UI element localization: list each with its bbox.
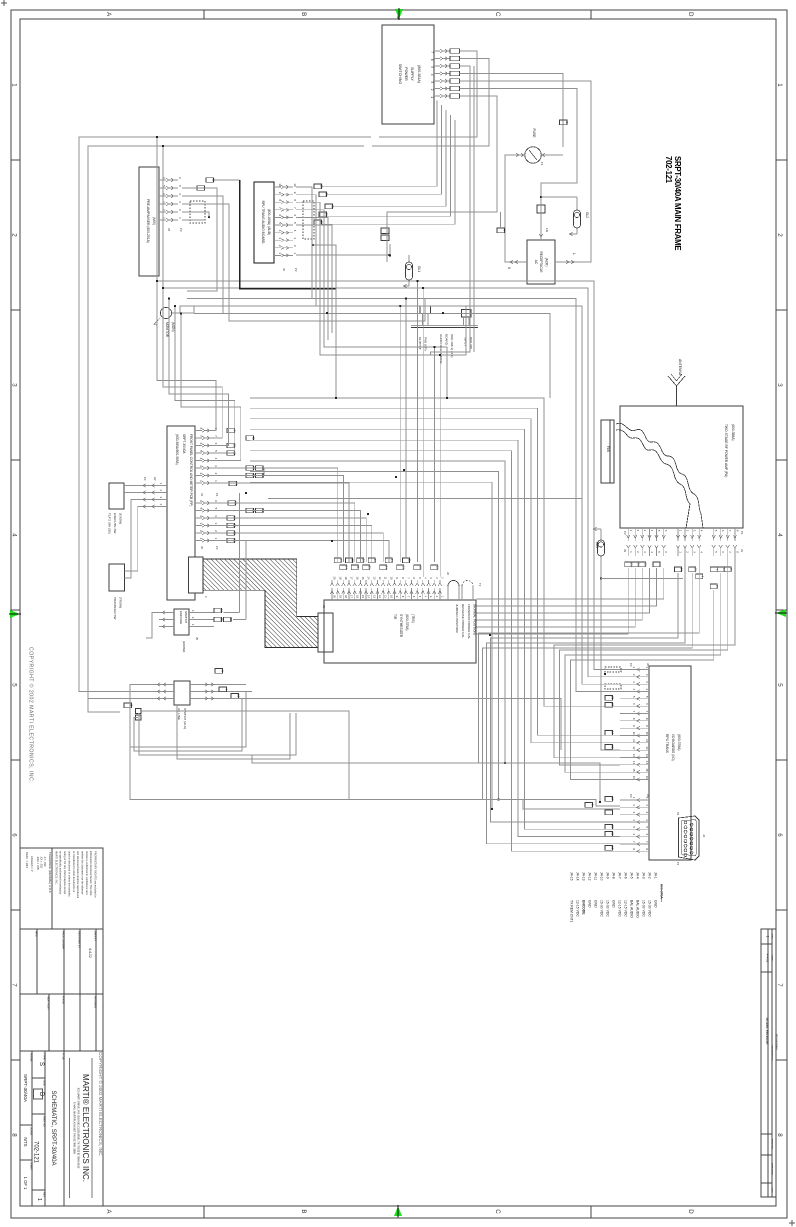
svg-text:13: 13 (632, 754, 636, 758)
svg-text:J4-2: J4-2 (648, 872, 652, 879)
svg-text:15: 15 (715, 585, 719, 589)
zone letter labels (105, 12, 694, 1214)
svg-text:FG: FG (545, 228, 549, 233)
svg-text:mation is submitted in confide: mation is submitted in confidence and (85, 851, 89, 895)
svg-text:38: 38 (694, 568, 698, 572)
svg-text:15-30 VDC: 15-30 VDC (600, 900, 604, 917)
svg-text:31,: 31, (356, 565, 360, 569)
svg-text:REVISIONS: REVISIONS (775, 1034, 779, 1050)
svg-text:GND: GND (612, 900, 616, 908)
wire PSU aux bundle to AUD labels (322, 101, 456, 225)
svg-text:COPYRIGHT © 2002 MARTI ELECTRO: COPYRIGHT © 2002 MARTI ELECTRONICS, INC. (28, 647, 35, 783)
wire bold audio feed (240, 180, 337, 289)
svg-text:13: 13 (402, 566, 406, 570)
svg-text:11: 11 (645, 739, 649, 742)
svg-text:J4-12: J4-12 (588, 872, 592, 881)
svg-text:(NORMAL POSITION): (NORMAL POSITION) (473, 604, 477, 635)
svg-text:21: 21 (324, 213, 328, 217)
svg-text:(800-380A/800-385A): (800-380A/800-385A) (175, 434, 179, 465)
svg-text:GND: GND (588, 900, 592, 908)
T/R synthesizer TRS (800-375A) + jumper info (324, 600, 477, 663)
svg-text:13: 13 (219, 609, 223, 613)
svg-text:.X ± .030: .X ± .030 (43, 856, 47, 867)
svg-text:(800-381A): (800-381A) (417, 65, 421, 83)
wire PSU lower stubs (473, 66, 475, 352)
svg-text:12: 12 (436, 566, 440, 570)
svg-text:ENCODE: ENCODE (179, 611, 183, 624)
svg-text:8: 8 (776, 1133, 783, 1137)
RF coil squiggles inside PA (616, 423, 703, 528)
svg-text:16: 16 (355, 595, 359, 598)
svg-text:MFG: MFG (35, 931, 38, 937)
svg-text:33: 33 (339, 559, 343, 563)
svg-text:GND: GND (594, 900, 598, 908)
svg-text:J3: J3 (167, 228, 171, 231)
MIX shield dashed box (190, 201, 210, 223)
F1/F2 switch + execute switch EXSW (108, 477, 168, 534)
svg-text:FRAC. ± 1/64: FRAC. ± 1/64 (25, 852, 29, 868)
svg-text:MARTI ELECTRONICS, INC.: MARTI ELECTRONICS, INC. (54, 851, 58, 885)
svg-text:15-30 VDC: 15-30 VDC (606, 900, 610, 917)
svg-text:J4-5: J4-5 (630, 872, 634, 879)
wire input pad loop via x582 (268, 306, 582, 499)
svg-text:or transferred to other docume: or transferred to other documents or (72, 851, 76, 893)
svg-text:SWITCHING: SWITCHING (398, 64, 402, 85)
svg-text:12: 12 (645, 746, 649, 750)
tolerance cell text (25, 852, 52, 894)
svg-text:23: 23 (390, 559, 394, 563)
svg-text:D: D (687, 1209, 694, 1214)
proprietary note text (54, 851, 97, 899)
wire pre-amp harness (182, 180, 425, 321)
svg-text:5: 5 (10, 683, 17, 687)
green centering marks (395, 8, 403, 20)
jumper arcs at TRS (448, 581, 482, 601)
svg-text:11: 11 (384, 577, 388, 580)
svg-text:15-30 VDC: 15-30 VDC (648, 900, 652, 917)
svg-text:DATE: DATE (771, 955, 774, 961)
svg-text:MODEL: MODEL (30, 1053, 33, 1063)
wire GL3 run (601, 579, 683, 750)
svg-text:J2: J2 (446, 572, 450, 575)
svg-text:16: 16 (355, 577, 359, 580)
svg-text:5: 5 (430, 66, 434, 68)
svg-text:A2: A2 (153, 477, 157, 481)
svg-text:INPUT: INPUT (464, 337, 468, 346)
svg-text:P2: P2 (294, 268, 298, 272)
svg-text:(800-388A): (800-388A) (731, 424, 735, 441)
title block frame (20, 848, 103, 1206)
svg-text:PROJ. LEADER: PROJ. LEADER (62, 931, 65, 949)
svg-text:8: 8 (10, 1133, 17, 1137)
audio regulator board RB (800-168-1) (411, 299, 478, 364)
svg-text:GL2: GL2 (585, 212, 589, 218)
wire PA pin groups J1/P1 drops to I/O (479, 556, 735, 844)
svg-text:34: 34 (345, 566, 349, 570)
svg-text:10: 10 (389, 577, 393, 580)
svg-text:5: 5 (776, 683, 783, 687)
svg-text:16: 16 (632, 776, 636, 780)
svg-text:(800-169A) (AUD): (800-169A) (AUD) (267, 209, 271, 236)
svg-text:26: 26 (229, 618, 233, 622)
svg-text:TX REM CNTL: TX REM CNTL (570, 900, 574, 923)
switching power supply PS1 (800-381A) (382, 25, 434, 124)
lamp GL2 (569, 197, 589, 236)
svg-text:P2: P2 (215, 546, 219, 550)
svg-text:2: 2 (776, 233, 783, 237)
svg-text:C: C (494, 1209, 501, 1214)
wire PSU pin harness (372, 51, 591, 355)
svg-text:ECN: ECN (771, 1188, 773, 1193)
svg-text:3: 3 (430, 81, 434, 83)
svg-text:1 OF 1: 1 OF 1 (23, 1177, 28, 1190)
svg-text:J1: J1 (740, 549, 744, 552)
svg-text:12: 12 (378, 577, 382, 580)
svg-text:ANTENNA: ANTENNA (678, 359, 682, 376)
svg-text:1: 1 (36, 1198, 42, 1201)
encode switch ENSW (159, 608, 233, 652)
svg-text:19: 19 (338, 595, 342, 598)
wire AC mains left loop (79, 137, 371, 710)
svg-text:1: 1 (776, 83, 783, 87)
svg-text:GND: GND (654, 900, 658, 908)
svg-text:J4-7: J4-7 (618, 872, 622, 879)
svg-text:J4-14: J4-14 (576, 872, 580, 881)
copyright above title block (98, 1052, 104, 1157)
svg-text:6: 6 (10, 833, 17, 837)
svg-text:ENCODE: ENCODE (582, 900, 586, 915)
svg-text:DRAFTED: DRAFTED (771, 1139, 774, 1150)
svg-text:AC LINE: AC LINE (177, 708, 181, 720)
wire bottom long runs to I/O (88, 699, 620, 810)
svg-text:12-15 VDC: 12-15 VDC (624, 900, 628, 917)
svg-text:F1: F1 (540, 162, 544, 166)
wire mid stair FP rows to right bundle (250, 398, 620, 851)
AC line switch ALS (124, 669, 240, 729)
TRS top pins 1-20 (330, 572, 450, 600)
svg-text:30: 30 (350, 559, 354, 563)
svg-text:P3: P3 (629, 794, 633, 798)
PS1 pins 1-7 with connector rects (430, 49, 460, 99)
junction dots misc (245, 312, 491, 636)
svg-text:27: 27 (610, 825, 614, 829)
svg-text:TITLE: TITLE (62, 1053, 65, 1060)
svg-text:15-30 VDC: 15-30 VDC (642, 900, 646, 917)
monitor jack MON (154, 307, 180, 337)
svg-text:19: 19 (338, 577, 342, 580)
antenna (668, 359, 685, 406)
svg-text:as specifically authorized in: as specifically authorized in writing by (59, 851, 63, 895)
svg-text:AUDIO REGULATOR: AUDIO REGULATOR (439, 334, 443, 364)
svg-text:12: 12 (378, 595, 382, 598)
svg-text:18: 18 (610, 846, 614, 850)
svg-text:T2: T2 (478, 583, 482, 587)
svg-text:GL1: GL1 (417, 266, 421, 272)
I/O pin group 2 (8) (620, 794, 650, 853)
svg-text:MARTI® ELECTRONICS INC.: MARTI® ELECTRONICS INC. (81, 1074, 90, 1182)
svg-text:L: L (572, 253, 576, 255)
svg-text:P1: P1 (740, 531, 744, 535)
svg-text:15: 15 (632, 768, 636, 772)
svg-text:BAL AUDIO: BAL AUDIO (630, 900, 634, 918)
svg-text:DESIGNED BY: DESIGNED BY (78, 931, 81, 948)
svg-text:1: 1 (430, 96, 434, 98)
svg-text:E-MAIL MARTIFLASH.NET FAX 8: E-MAIL MARTIFLASH.NET FAX 817/641-3869 (73, 1102, 76, 1155)
svg-text:POWER: POWER (404, 67, 408, 81)
svg-text:DWN BY: DWN BY (94, 931, 97, 941)
svg-text:13: 13 (645, 754, 649, 758)
lamp GL1 (381, 228, 421, 288)
svg-text:17: 17 (350, 595, 354, 598)
AUD wire labels (314, 184, 334, 225)
svg-text:SRPT-30/40A: SRPT-30/40A (23, 1074, 28, 1103)
svg-text:(MIX): (MIX) (152, 217, 156, 225)
svg-text:MATERIAL: MATERIAL (94, 996, 97, 1009)
svg-text:NTS: NTS (23, 1137, 28, 1146)
svg-text:14: 14 (645, 761, 649, 765)
FP wire labels (227, 428, 265, 543)
J4 pin assignment table (570, 872, 664, 923)
svg-text:25: 25 (219, 618, 223, 622)
svg-text:J4-15: J4-15 (570, 872, 574, 881)
svg-text:6: 6 (430, 59, 434, 61)
wire top horizontals H1/H2 bus (156, 136, 620, 692)
MIX wire labels (197, 178, 215, 191)
svg-text:ANGLES ± 1°: ANGLES ± 1° (30, 856, 34, 872)
RPU trans I/O boards (800-378A) (649, 666, 691, 860)
svg-text:20: 20 (333, 577, 337, 580)
svg-text:DESCRIPTION: DESCRIPTION (771, 1046, 773, 1061)
lamp GL3 (593, 527, 605, 579)
PA bottom pins (623, 528, 744, 556)
svg-text:1: 1 (10, 83, 17, 87)
svg-text:J4-4: J4-4 (636, 872, 640, 879)
FP pin group B (6) (195, 500, 219, 550)
svg-text:12-15 VDC: 12-15 VDC (618, 900, 622, 917)
revisions table (761, 929, 779, 1197)
svg-text:26: 26 (373, 559, 377, 563)
wire audio board harness (296, 187, 466, 385)
svg-text:RECEPTACLE: RECEPTACLE (539, 251, 543, 272)
svg-text:J2: J2 (282, 268, 286, 271)
svg-text:COPYRIGHT © 2002 MARTI ELECTRO: COPYRIGHT © 2002 MARTI ELECTRONICS, INC. (98, 1052, 104, 1157)
svg-text:(800-168-1) (RB): (800-168-1) (RB) (450, 334, 454, 357)
svg-text:1: 1 (766, 936, 770, 938)
AUD pins 1-10 (274, 183, 298, 272)
svg-text:SUPPLY: SUPPLY (410, 67, 414, 82)
wire TRS upper verticals with junctions (399, 280, 441, 577)
svg-text:neither this document nor the: neither this document nor the informa- (80, 851, 84, 895)
model scale sheet cells (23, 1053, 33, 1190)
svg-text:J5: J5 (195, 637, 199, 640)
svg-text:3: 3 (10, 383, 17, 387)
svg-text:BOARD: BOARD (445, 334, 449, 346)
svg-text:EXECUTE SW: EXECUTE SW (113, 513, 117, 534)
svg-text:(EXSW): (EXSW) (119, 513, 123, 524)
svg-text:14: 14 (679, 568, 683, 572)
svg-text:FINISH: FINISH (62, 996, 65, 1004)
svg-text:P1: P1 (215, 493, 219, 497)
svg-text:4-4-02: 4-4-02 (766, 954, 770, 963)
hatched ribbon cable (203, 559, 319, 648)
svg-text:15: 15 (361, 577, 365, 580)
svg-text:J4-1: J4-1 (654, 872, 658, 879)
svg-text:2: 2 (430, 89, 434, 91)
svg-text:12: 12 (610, 745, 614, 749)
svg-text:TWO STAGE RF POWER AMP (PA): TWO STAGE RF POWER AMP (PA) (724, 424, 728, 477)
svg-text:421 MARTI DRIVE, P.O. BOX 661: 421 MARTI DRIVE, P.O. BOX 661 CLEBURNE, … (77, 1088, 80, 1169)
type size dwg cells (33, 1053, 46, 1201)
svg-text:14: 14 (367, 595, 371, 598)
svg-text:36: 36 (722, 568, 726, 572)
svg-text:35: 35 (729, 568, 733, 572)
svg-text:BAL AUDIO: BAL AUDIO (636, 900, 640, 918)
svg-text:J1: J1 (200, 493, 204, 496)
svg-text:10: 10 (389, 595, 393, 598)
svg-text:REVERSE POWER CAL: REVERSE POWER CAL (461, 604, 465, 638)
RPU trans audio board AUD (800-169A) (254, 182, 274, 263)
svg-text:T/R: T/R (393, 614, 397, 620)
svg-text:11: 11 (384, 595, 388, 598)
svg-text:JUMPER POSITION:: JUMPER POSITION: (455, 604, 459, 633)
svg-text:40: 40 (251, 436, 255, 440)
svg-text:SWITCH: SWITCH (184, 611, 188, 623)
svg-text:18: 18 (344, 595, 348, 598)
svg-text:702-121: 702-121 (33, 1141, 39, 1164)
sheet title SRPT-30/40A MAIN FRAME (664, 156, 682, 250)
fuse F1 (513, 128, 553, 165)
svg-text:FORWARD POWER CAL: FORWARD POWER CAL (467, 604, 471, 640)
svg-text:TRANSFER SW: TRANSFER SW (113, 597, 117, 620)
svg-text:13: 13 (372, 595, 376, 598)
svg-text:RPU TRANS AUDIO BOARD: RPU TRANS AUDIO BOARD (261, 201, 265, 244)
wire left stair H-bus taps down to FP pins (156, 280, 241, 461)
svg-text:(TRSW): (TRSW) (119, 597, 123, 608)
svg-text:C: C (494, 12, 501, 17)
svg-text:P1: P1 (676, 862, 680, 866)
svg-text:J4: J4 (702, 834, 706, 837)
svg-text:10: 10 (632, 732, 636, 736)
svg-text:4: 4 (430, 74, 434, 76)
svg-text:J2: J2 (646, 663, 650, 666)
svg-text:4-4-02: 4-4-02 (88, 948, 92, 958)
svg-text:(MON): (MON) (171, 322, 175, 332)
svg-text:7: 7 (10, 983, 17, 987)
svg-text:RPU TRANS: RPU TRANS (665, 734, 669, 754)
svg-text:3: 3 (776, 383, 783, 387)
svg-text:J4-3: J4-3 (642, 872, 646, 879)
svg-text:14: 14 (367, 577, 371, 580)
svg-text:REV: REV (43, 1192, 46, 1197)
svg-text:SRPT-30/40A MAIN FRAME: SRPT-30/40A MAIN FRAME (673, 156, 682, 250)
I/O wire labels (585, 696, 614, 851)
FP pin group A (8) (195, 428, 219, 497)
svg-text:14: 14 (234, 482, 238, 486)
svg-text:12: 12 (632, 746, 636, 750)
svg-text:.XXX ± .005: .XXX ± .005 (36, 856, 40, 870)
svg-text:10: 10 (645, 732, 649, 736)
svg-text:15: 15 (645, 768, 649, 772)
svg-text:7: 7 (430, 51, 434, 53)
svg-text:DWG NO: DWG NO (43, 1116, 46, 1127)
svg-text:11: 11 (407, 559, 411, 562)
svg-text:SIZE: SIZE (43, 1080, 46, 1086)
wire FP harness to TRS pins (214, 468, 389, 562)
svg-text:10: 10 (419, 566, 423, 570)
svg-text:15: 15 (361, 595, 365, 598)
svg-text:4: 4 (776, 533, 783, 537)
wire ALS loops (130, 685, 601, 804)
svg-text:36: 36 (610, 832, 614, 836)
svg-text:SHEET: SHEET (30, 1162, 33, 1171)
svg-text:TOLERANCE (DECIMAL) U.O.S.: TOLERANCE (DECIMAL) U.O.S. (48, 852, 52, 894)
svg-text:B: B (300, 12, 307, 16)
svg-text:2: 2 (10, 233, 17, 237)
FP ribbon connector rect (189, 557, 209, 598)
PA pin wire labels (625, 562, 733, 589)
svg-text:FUSE: FUSE (532, 128, 536, 138)
TRS pin wire labels (334, 558, 440, 570)
AUD shield dashed box (303, 201, 314, 246)
svg-text:.XX ± .015: .XX ± .015 (40, 856, 44, 869)
svg-text:PAD (OP): PAD (OP) (424, 337, 428, 351)
svg-text:(800-378A): (800-378A) (677, 734, 681, 751)
svg-text:P3: P3 (179, 228, 183, 232)
fan (601, 420, 614, 483)
DB15 connector J4 (676, 812, 706, 866)
svg-text:J4-11: J4-11 (594, 872, 598, 880)
svg-text:J4-8: J4-8 (612, 872, 616, 879)
svg-text:21: 21 (610, 696, 614, 700)
svg-text:J4-9: J4-9 (606, 872, 610, 879)
svg-text:J3: J3 (623, 549, 627, 552)
svg-text:NEXT ASSY: NEXT ASSY (47, 996, 50, 1010)
svg-text:SCHEMATIC, SRPT-30/40A: SCHEMATIC, SRPT-30/40A (50, 1091, 56, 1166)
title cell (50, 1053, 65, 1165)
svg-text:MODEL RELEASE: MODEL RELEASE (765, 1018, 769, 1045)
svg-text:18: 18 (344, 577, 348, 580)
svg-text:GL3: GL3 (595, 542, 599, 548)
two stage RF power amp PA (800-388A) (620, 406, 743, 528)
company name cell (70, 1058, 93, 1198)
svg-text:11: 11 (632, 739, 636, 742)
svg-text:13: 13 (372, 577, 376, 580)
svg-text:turing or for any other purpos: turing or for any other purpose except (63, 851, 67, 895)
svg-text:tion disclosed herein shall be: tion disclosed herein shall be reproduce… (76, 851, 80, 899)
svg-text:24: 24 (385, 566, 389, 570)
svg-text:14: 14 (610, 731, 614, 735)
svg-text:PROPRIETARY RIGHTS are include: PROPRIETARY RIGHTS are included in (94, 851, 98, 898)
svg-text:B: B (300, 1209, 307, 1213)
svg-text:(800-375A): (800-375A) (405, 614, 409, 631)
svg-text:10: 10 (278, 183, 282, 187)
svg-text:PAD (IP): PAD (IP) (469, 337, 473, 349)
I/O pin group 1 (16) (620, 663, 650, 781)
svg-text:SRPT-30/40A: SRPT-30/40A (182, 434, 186, 454)
svg-text:702-121: 702-121 (664, 156, 673, 184)
copyright left margin (28, 647, 35, 783)
svg-text:7: 7 (776, 983, 783, 987)
svg-text:16: 16 (645, 776, 649, 780)
svg-text:D: D (687, 12, 694, 17)
svg-text:APPROVED: APPROVED (771, 1163, 774, 1176)
svg-text:REV: REV (771, 934, 773, 939)
svg-text:P3: P3 (623, 531, 627, 535)
svg-text:38: 38 (644, 563, 648, 567)
svg-text:17: 17 (350, 577, 354, 580)
I/O dashed shield stubs (599, 667, 621, 803)
svg-text:29: 29 (362, 559, 366, 563)
